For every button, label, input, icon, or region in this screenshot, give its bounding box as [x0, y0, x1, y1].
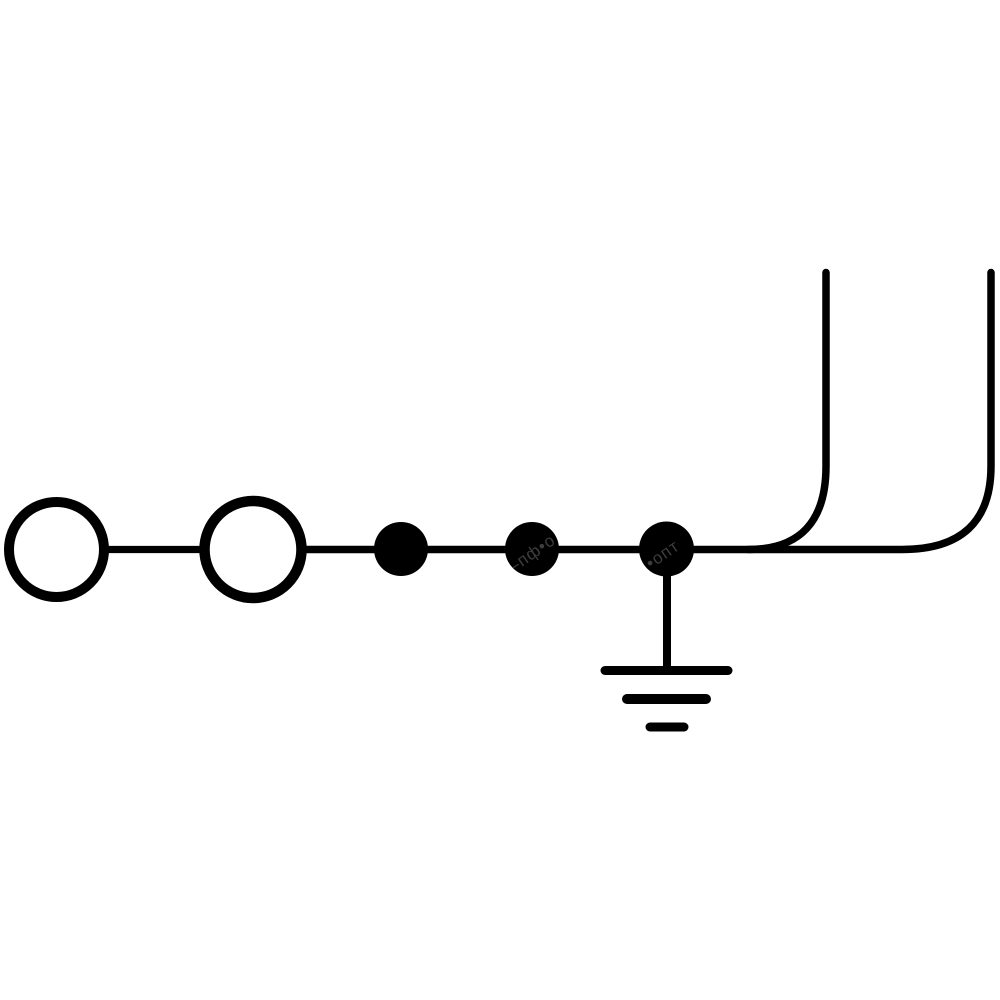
test socket circle 2 — [205, 501, 302, 598]
curved wire exit 1 — [748, 273, 826, 550]
contact junction dot 1 — [374, 522, 428, 576]
contact junction dot 2 — [505, 522, 559, 576]
ground bar 2 — [627, 694, 706, 704]
wire between socket 1 and socket 2 — [104, 546, 204, 553]
test socket circle 1 — [9, 502, 104, 597]
main horizontal wire with right bend exit 2 — [302, 273, 991, 550]
ground bar 1 — [605, 666, 728, 675]
ground bar 3 — [650, 723, 684, 732]
contact junction dot 3 (PE tap) — [639, 522, 694, 577]
vertical wire to ground — [663, 556, 671, 666]
